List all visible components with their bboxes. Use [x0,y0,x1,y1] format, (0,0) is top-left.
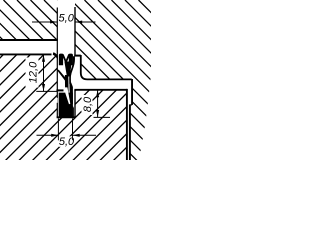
svg-text:8,0: 8,0 [82,96,94,112]
svg-text:5,0: 5,0 [59,12,75,24]
svg-text:5,0: 5,0 [59,136,75,148]
svg-text:12,0: 12,0 [27,61,39,83]
